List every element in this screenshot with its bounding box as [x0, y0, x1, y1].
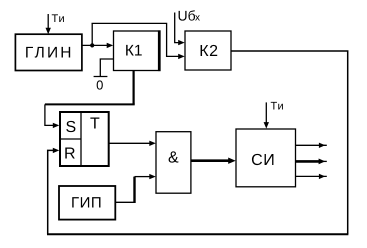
- gate D1 AND (&): [156, 132, 191, 194]
- svg-text:ГЛИН: ГЛИН: [25, 45, 74, 62]
- wire: top link from junction to K2 lower input: [92, 23, 185, 59]
- svg-text:Ти: Ти: [52, 13, 66, 25]
- output arrow 1 from SI: [296, 143, 327, 148]
- block U3 GIP pulse generator: [59, 186, 115, 220]
- svg-text:R: R: [64, 146, 76, 163]
- svg-text:Ти: Ти: [271, 101, 285, 113]
- wire: GLIN output to K1 input: [82, 43, 113, 48]
- wire: junction riser up: [91, 23, 93, 45]
- svg-text:К1: К1: [125, 42, 143, 59]
- wire: Ти clock into SI top: [264, 102, 269, 128]
- svg-text:Uб: Uб: [178, 8, 196, 24]
- wire: Uбх into K2 upper input: [175, 13, 185, 46]
- zero reference input to K1: [94, 59, 114, 93]
- wire: K1 output down-left to trigger S input: [45, 71, 135, 129]
- output arrow 2 from SI (thick): [296, 159, 327, 165]
- svg-text:х: х: [195, 13, 200, 24]
- wire: GIP output up to AND gate input 2: [115, 174, 156, 203]
- svg-text:T: T: [90, 115, 100, 132]
- svg-text:К2: К2: [199, 43, 218, 60]
- wire: trigger output to AND gate input 1: [109, 141, 156, 146]
- output arrow 3 from SI: [296, 174, 327, 179]
- svg-text:&: &: [168, 150, 179, 167]
- block U2 T flip-flop: [60, 111, 109, 166]
- node junction on GLIN-K1 wire: [90, 43, 94, 47]
- svg-text:ГИП: ГИП: [71, 194, 102, 211]
- wire: Ти clock into GLIN top: [46, 14, 51, 34]
- wire: K2 output feedback to trigger R input: [47, 51, 348, 234]
- svg-text:СИ: СИ: [251, 152, 275, 169]
- block K2 comparator: [185, 31, 231, 70]
- input label Uбх: [178, 8, 201, 24]
- block K1 comparator: [114, 30, 161, 71]
- svg-text:0: 0: [96, 78, 103, 93]
- svg-text:S: S: [65, 119, 76, 136]
- block U1 GLIN (ГЛИН ramp generator): [15, 34, 82, 70]
- block U4 SI coincidence circuit: [236, 129, 296, 187]
- wire: AND output to SI input (thick): [191, 158, 236, 164]
